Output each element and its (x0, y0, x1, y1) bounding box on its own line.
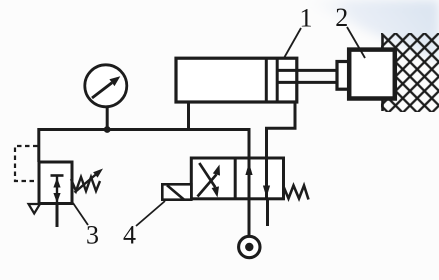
svg-text:2: 2 (335, 3, 348, 32)
svg-text:3: 3 (86, 221, 99, 250)
svg-text:1: 1 (300, 4, 313, 33)
svg-text:4: 4 (123, 221, 136, 250)
